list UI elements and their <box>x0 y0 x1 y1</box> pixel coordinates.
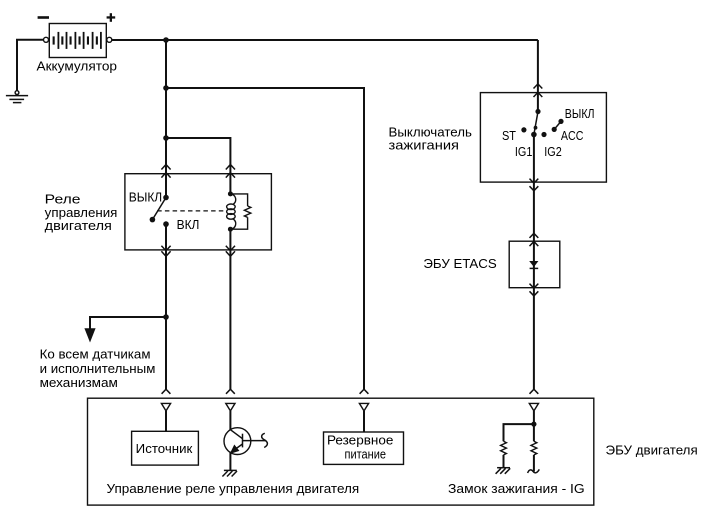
battery box <box>49 24 106 58</box>
connector triangle ECU entry 4 <box>529 403 538 411</box>
node junction y138 <box>163 135 169 141</box>
svg-text:IG2: IG2 <box>544 144 562 159</box>
wire battery plus to top bus <box>112 39 538 41</box>
wire ETACS to ECU <box>533 288 535 390</box>
node junction bus/main vertical <box>163 37 169 43</box>
ignition ST contact <box>521 127 526 132</box>
source box <box>132 431 199 465</box>
connector chevrons relay top left <box>161 165 170 178</box>
backup power label <box>327 433 393 462</box>
ignition switch box <box>480 93 606 183</box>
relay switch arm <box>152 198 166 220</box>
connector triangle ECU entry 2 <box>226 403 235 411</box>
connector chevrons relay bottom left <box>161 246 170 257</box>
wire branch to sensors <box>90 317 166 329</box>
relay coil bottom node <box>228 227 233 232</box>
svg-text:питание: питание <box>345 446 387 461</box>
node junction sensors branch <box>163 314 169 320</box>
node resistor junction <box>531 422 536 427</box>
connector fork ECU entry 1 <box>162 389 171 394</box>
arrow to sensors <box>84 328 95 342</box>
wire junction to left resistor <box>504 424 534 441</box>
ground (battery) <box>6 91 28 103</box>
wire right resistor down <box>533 455 535 472</box>
svg-text:Ко всем датчикам: Ко всем датчикам <box>40 346 151 361</box>
transistor base bar <box>242 434 244 448</box>
transistor collector <box>230 430 242 439</box>
relay actuation dashed link <box>157 210 227 212</box>
ignition rotor arm mid dot <box>534 126 538 130</box>
wire ignition pivot to box bottom <box>533 135 535 183</box>
ignition IG2 contact <box>541 132 546 137</box>
svg-text:зажигания: зажигания <box>389 137 460 152</box>
node junction y88 <box>163 85 169 91</box>
wire battery minus to ground <box>17 40 44 91</box>
wire emitter to ground <box>229 453 231 471</box>
diode in ETACS <box>529 261 538 268</box>
wire entry 2 to transistor <box>229 411 231 430</box>
squiggle right resistor continuation <box>528 469 540 473</box>
connector fork ECU entry 2 <box>226 389 235 394</box>
svg-text:Аккумулятор: Аккумулятор <box>37 59 118 74</box>
connector chevrons relay top right <box>226 165 235 178</box>
svg-text:ACC: ACC <box>561 128 584 143</box>
relay coil <box>227 194 236 229</box>
relay switch ВКЛ contact <box>163 221 169 227</box>
connector chevrons ETACS top <box>530 233 539 246</box>
svg-text:Замок зажигания - IG: Замок зажигания - IG <box>448 481 585 496</box>
ignition switch label <box>389 125 473 153</box>
ignition ACC contact <box>552 127 557 132</box>
svg-text:ВЫКЛ: ВЫКЛ <box>129 190 163 205</box>
wire ignition to ETACS <box>533 182 535 241</box>
wire main vertical from bus to relay <box>165 40 167 198</box>
transistor base squiggle <box>262 433 268 447</box>
relay coil top node <box>228 191 233 196</box>
wire relay coil output down to ECU <box>229 250 231 389</box>
svg-text:Управление реле управления дви: Управление реле управления двигателя <box>107 481 360 496</box>
transistor circle <box>224 428 251 455</box>
ignition pivot node <box>531 132 537 138</box>
connector fork ECU entry 4 <box>530 389 539 394</box>
svg-text:ВКЛ: ВКЛ <box>177 217 200 232</box>
backup power box <box>324 432 404 464</box>
connector chevrons ignition bottom <box>530 179 539 191</box>
svg-text:и исполнительным: и исполнительным <box>40 361 156 376</box>
ETACS box <box>509 241 560 288</box>
wire ВКЛ contact to relay bottom <box>165 224 167 250</box>
svg-text:IG1: IG1 <box>515 144 533 159</box>
wire relay left output down to ECU <box>165 250 167 389</box>
relay label <box>45 191 118 233</box>
svg-text:ST: ST <box>502 128 516 143</box>
resistor left <box>501 441 507 455</box>
relay switch ВЫКЛ contact <box>163 195 169 201</box>
ignition rotor arm <box>534 112 538 135</box>
svg-text:ВЫКЛ: ВЫКЛ <box>565 106 595 121</box>
relay coil parallel resistor <box>230 194 250 229</box>
transistor emitter <box>230 444 242 453</box>
svg-text:ЭБУ ETACS: ЭБУ ETACS <box>423 256 496 271</box>
ignition ВЫКЛ contact <box>558 119 563 124</box>
wire through ETACS <box>533 241 535 288</box>
ignition ACC arm <box>554 121 561 129</box>
engine ECU box <box>88 398 594 505</box>
battery plus terminal circle <box>107 37 112 42</box>
wire branch to relay coil <box>166 138 230 195</box>
wire left resistor to ground <box>503 455 505 468</box>
sensors label <box>40 346 156 390</box>
plus sign label <box>107 13 116 22</box>
battery minus terminal circle <box>44 37 49 42</box>
wire entry 4 to resistors <box>533 411 535 441</box>
battery cells <box>53 32 102 49</box>
wire entry 1 to source box <box>165 411 167 431</box>
svg-text:двигателя: двигателя <box>45 218 112 233</box>
ignition rotor input node <box>535 109 540 114</box>
minus sign label <box>38 16 49 19</box>
connector triangle ECU entry 3 <box>359 403 368 411</box>
chassis ground (transistor) <box>222 470 237 476</box>
relay box <box>125 174 272 250</box>
connector fork ECU entry 3 <box>360 389 369 394</box>
wire ignition switch feed (down from bus) <box>537 40 539 112</box>
svg-text:механизмам: механизмам <box>40 375 118 390</box>
wire branch to backup power <box>166 88 364 389</box>
connector chevrons ETACS bottom <box>530 284 539 296</box>
transistor base lead <box>243 440 267 442</box>
resistor right <box>531 441 537 455</box>
svg-text:Источник: Источник <box>136 441 193 456</box>
connector chevrons relay bottom right <box>226 246 235 257</box>
chassis ground (left resistor) <box>496 468 511 474</box>
connector triangle ECU entry 1 <box>161 403 170 411</box>
wire coil bottom to relay bottom <box>229 229 231 250</box>
transistor emitter arrow <box>231 445 239 453</box>
wire entry 3 to backup power box <box>363 411 365 432</box>
relay switch arm contact <box>150 217 156 223</box>
connector chevrons ignition top <box>534 84 543 97</box>
svg-text:ЭБУ двигателя: ЭБУ двигателя <box>606 442 698 457</box>
